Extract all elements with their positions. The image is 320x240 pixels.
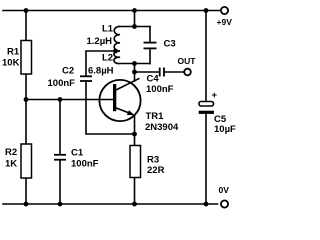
node junction tank bottom [132, 61, 137, 66]
svg-text:0V: 0V [219, 185, 230, 195]
terminal +9V [221, 7, 228, 14]
svg-text:100nF: 100nF [48, 78, 76, 89]
svg-text:C4: C4 [147, 74, 160, 85]
capacitor C2 [80, 76, 92, 81]
svg-text:R3: R3 [147, 155, 159, 166]
svg-text:+: + [212, 90, 218, 101]
capacitor C5 electrolytic [199, 102, 214, 114]
wire R3 bottom lead [134, 178, 136, 205]
inductor L1 [114, 26, 120, 51]
wire collector lead [134, 64, 136, 82]
svg-text:+9V: +9V [217, 17, 233, 27]
node junction coil tap [113, 49, 118, 54]
capacitor C3 [144, 43, 157, 49]
node junction bottom rail / R2 [24, 202, 29, 207]
node junction tank top [132, 24, 137, 29]
resistor R3 [130, 146, 141, 178]
svg-text:OUT: OUT [178, 56, 197, 66]
wire C5 bottom lead [205, 114, 207, 204]
svg-text:10µF: 10µF [214, 124, 236, 135]
svg-text:100nF: 100nF [146, 84, 174, 95]
wire R2 to bottom rail [25, 178, 27, 205]
node junction bottom rail / C5 [204, 202, 209, 207]
svg-text:L1: L1 [102, 24, 114, 35]
svg-text:1.2µH: 1.2µH [87, 36, 113, 47]
svg-text:10K: 10K [2, 58, 20, 69]
wire base [26, 99, 115, 101]
capacitor C1 [54, 155, 66, 160]
capacitor C4 [160, 68, 164, 77]
svg-text:R2: R2 [5, 147, 17, 158]
transistor TR1 2N3904 [99, 78, 140, 121]
node junction C4 branch [132, 70, 137, 75]
wire C1 lower lead [59, 160, 61, 204]
wire C1 upper lead [59, 100, 61, 155]
node junction bottom rail / R3 [132, 202, 137, 207]
node junction bottom rail / C1 [58, 202, 63, 207]
node junction base / left rail [24, 97, 29, 102]
svg-text:6.8µH: 6.8µH [88, 66, 114, 77]
svg-text:1K: 1K [5, 159, 17, 170]
svg-text:100nF: 100nF [71, 159, 99, 170]
node junction top rail / tank feed [132, 8, 137, 13]
wire C2 bottom to emitter node [86, 81, 135, 134]
wire C3 bottom lead [149, 49, 151, 64]
wire left rail R1/R2 branch [25, 11, 27, 42]
wire bottom rail [3, 203, 218, 205]
wire C5 top lead [205, 11, 207, 102]
resistor R2 [21, 144, 32, 178]
wire between R1 and R2 [25, 74, 27, 145]
svg-text:R1: R1 [7, 47, 20, 58]
inductor L2 [114, 51, 120, 64]
svg-text:2N3904: 2N3904 [145, 122, 179, 133]
wire top rail [3, 10, 221, 12]
node junction top rail / R1 [24, 8, 29, 13]
terminal OUT [184, 69, 191, 76]
node junction base / C1 [58, 97, 63, 102]
svg-text:TR1: TR1 [146, 111, 165, 122]
wire tank top [120, 26, 150, 28]
svg-text:22R: 22R [147, 165, 165, 176]
wire R3 top lead [134, 134, 136, 146]
node junction top rail / C5 [204, 8, 209, 13]
svg-text:C1: C1 [71, 148, 84, 159]
terminal 0V [221, 200, 228, 207]
wire tank bottom [120, 63, 150, 65]
wire emitter lead [134, 115, 136, 134]
svg-text:L2: L2 [102, 53, 113, 64]
node junction emitter / R3 [132, 132, 137, 137]
wire tap horizontal [86, 51, 116, 76]
wire C4 to OUT [164, 71, 184, 73]
wire C4 branch [135, 71, 160, 73]
wire tank feed from top rail [134, 11, 136, 27]
wire C3 top lead [149, 27, 151, 43]
svg-text:C3: C3 [164, 39, 176, 50]
resistor R1 [21, 41, 32, 75]
svg-text:C2: C2 [62, 66, 74, 77]
